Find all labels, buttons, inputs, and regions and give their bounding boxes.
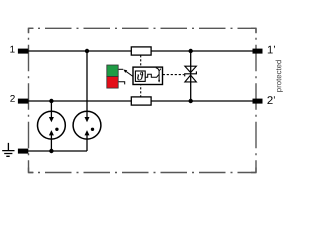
node junction on line 2 [49,99,53,103]
node junction on ground line [49,149,53,153]
status indicator green [107,65,118,77]
label protected (rotated) [276,60,283,92]
border corner joints [29,28,257,172]
dash-dot protected-zone border [29,28,257,172]
terminal ground (left) [18,149,28,154]
terminal 2 (left) [18,99,28,104]
label 1 [10,46,14,53]
label 2 [10,95,15,102]
terminal 1 (left) [18,49,28,54]
linkage wire from indicator [119,68,124,70]
dashed control line vertical (R1 - box - R2) [140,55,142,97]
wire line 2 [20,100,260,102]
wire ground line [23,150,87,152]
gas discharge tube F1 (circle) [38,111,66,139]
ground symbol [2,143,14,156]
linkage actuating arrow [126,71,133,76]
wire line 1 [20,50,260,52]
TVS suppressor diode top triangle [185,66,196,72]
terminal 2' (right) [253,99,263,104]
node junction on line 1 [85,49,89,53]
thermal element (theta) inside box [135,71,145,81]
dashed control line to diode [163,74,184,76]
TVS zener bar [185,71,197,76]
node junction line2/diode [189,99,193,103]
terminal 1' (right) [253,49,263,54]
label 1' [268,46,275,54]
label 2' [267,96,274,104]
wire vertical from line 1 to GDT F2 [86,51,88,151]
status indicator red [107,77,118,89]
resistor/decoupling element R1 on line 1 [131,47,151,55]
disconnector box U1 [133,67,163,84]
TVS suppressor diode bottom triangle [185,75,196,82]
wire vertical from line 2 to GDT F1 [50,101,52,151]
resistor/decoupling element R2 on line 2 [131,97,151,105]
surge pulse + trigger arrow inside box [145,74,159,77]
linkage bracket [119,82,125,85]
node junction line1/diode [189,49,193,53]
gas discharge tube F2 (circle) [73,111,101,139]
wire vertical through TVS diode [190,51,192,101]
